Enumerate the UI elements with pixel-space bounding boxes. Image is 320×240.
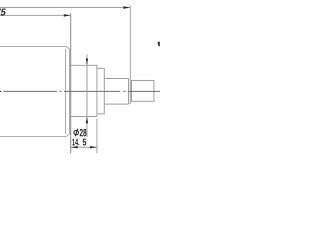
dim text 14.5 bbox=[72, 139, 79, 146]
dim text 5 (clipped 75) bbox=[0, 9, 6, 16]
extension line boss right bbox=[96, 119, 98, 154]
washer line bbox=[129, 78, 131, 104]
arrowhead dia28 down bbox=[86, 59, 88, 66]
arrowhead body dim right bbox=[64, 14, 71, 17]
clipped note text fragment at right edge bbox=[158, 42, 160, 47]
centerline dash-dot bbox=[0, 90, 1, 92]
dimension line 75 (overall length, clipped left) bbox=[0, 7, 130, 9]
shaft bbox=[104, 78, 128, 104]
boss cylinder dia 28 bbox=[70, 65, 97, 116]
dim text 14.5 tail bbox=[83, 139, 87, 146]
extension line shaft end bbox=[129, 6, 131, 79]
dim 14.5 dimension line bbox=[71, 146, 97, 148]
arrowhead 14.5 left bbox=[71, 146, 78, 148]
end cap / pinion bbox=[132, 80, 154, 101]
body outline: big cylinder bbox=[0, 46, 70, 136]
extension line body face (full height) bbox=[70, 13, 72, 153]
chamfer edge line bbox=[65, 49, 67, 134]
dimension line body length (clipped left) bbox=[0, 14, 71, 16]
shaft end face bbox=[128, 78, 130, 104]
dia28 dimension line vertical bbox=[86, 55, 88, 138]
arrowhead overall dim right bbox=[123, 6, 130, 9]
arrowhead dia28 up bbox=[86, 117, 88, 124]
dim text 28 bbox=[80, 129, 87, 137]
dia symbol bbox=[74, 129, 79, 137]
collar step bbox=[97, 68, 104, 113]
body right face edge bbox=[69, 49, 71, 134]
arrowhead 14.5 right bbox=[90, 146, 97, 148]
